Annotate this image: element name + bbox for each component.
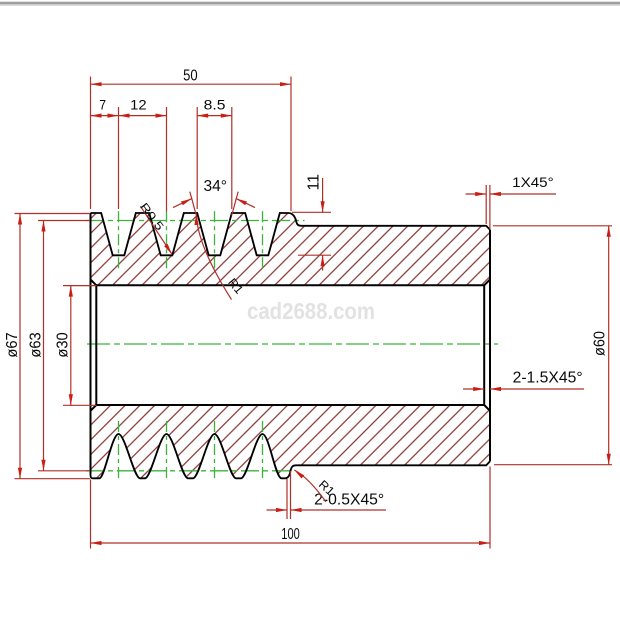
dim 2-0.5X45: extension lines [286, 479, 288, 519]
svg-text:ø30: ø30 [55, 332, 72, 357]
groove 2 centerline lower [166, 421, 168, 479]
dim 11: dimension line and arrows [322, 178, 324, 212]
dim phi63: dimension line [43, 221, 45, 471]
dim 11: extension lines [292, 211, 331, 213]
part outline: right face [489, 230, 491, 461]
pitch line lower [86, 470, 294, 472]
dim 7/12: dimension line [91, 115, 167, 117]
svg-text:34°: 34° [204, 178, 228, 195]
groove 3 centerline upper [214, 211, 216, 269]
dim 7/12: extension lines [118, 107, 120, 209]
svg-text:2-1.5X45°: 2-1.5X45° [513, 370, 583, 387]
bore chamfer edge right [483, 285, 485, 405]
svg-text:ø63: ø63 [27, 332, 44, 357]
part outline: grooved top profile with right chamfer [91, 213, 491, 255]
bore lower edge [96, 404, 484, 406]
leader R1 upper: line and arrow [196, 214, 231, 300]
svg-text:50: 50 [183, 68, 198, 85]
dim 2-1.5X45: dimension line and arrows [463, 388, 484, 390]
top gray separator bar [0, 1, 620, 2]
svg-text:11: 11 [306, 174, 323, 191]
groove 1 centerline lower [118, 421, 120, 479]
part outline: bottom wavy groove profile [91, 411, 491, 479]
hatched upper section (pulley rim cross-section) [91, 213, 491, 285]
dim phi60: extension lines [493, 225, 612, 227]
bore chamfer bottom-right [484, 405, 490, 411]
dim phi67: dimension line [19, 214, 21, 479]
groove 3 centerline lower [214, 421, 216, 479]
dim 100: extension lines [90, 480, 92, 549]
svg-text:cad2688.com: cad2688.com [247, 298, 375, 324]
svg-text:ø67: ø67 [4, 332, 21, 357]
dim 100: dimension line [91, 542, 491, 544]
dim phi30: dimension line [70, 286, 72, 406]
dim 8.5: dimension line [197, 115, 232, 117]
leader R1 lower: line and arrow [294, 470, 326, 502]
dim 1X45: extension lines [485, 185, 487, 224]
leader R0.5: line and arrow [141, 206, 172, 254]
part outline: left face [90, 213, 92, 473]
svg-text:100: 100 [281, 526, 300, 543]
dim 50: extension lines [90, 77, 92, 210]
groove 1 centerline upper [118, 211, 120, 269]
dim phi30: extension lines [63, 285, 97, 287]
bore upper edge [96, 284, 484, 286]
dim phi67: extension lines [15, 213, 91, 215]
svg-text:ø60: ø60 [592, 331, 609, 356]
pitch line upper [86, 220, 305, 222]
svg-text:8.5: 8.5 [204, 97, 226, 113]
dim phi60: dimension line [608, 226, 610, 465]
hatched lower section (pulley rim cross-section mirror) [91, 405, 491, 478]
dim 50: dimension line [91, 83, 292, 85]
axis centerline [87, 343, 498, 345]
groove 4 centerline lower [262, 421, 264, 479]
dim 8.5: extension lines [196, 107, 198, 209]
dim 34deg: left arrow line and arc [173, 199, 192, 208]
dim 1X45: dimension line and arrows [466, 193, 487, 195]
bore chamfer top-right [484, 280, 490, 286]
bore chamfer top-left [91, 280, 97, 286]
dim 34deg: right arrow line and arc [236, 199, 255, 208]
dim phi63: extension lines [38, 220, 90, 222]
dim 2-0.5X45: dimension line and arrows [267, 509, 288, 511]
svg-text:7: 7 [99, 97, 106, 113]
bore chamfer bottom-left [91, 405, 97, 411]
groove 4 centerline upper [262, 211, 264, 269]
bore chamfer edge left [95, 285, 97, 405]
svg-text:1X45°: 1X45° [512, 175, 554, 190]
groove 2 centerline upper [166, 211, 168, 269]
svg-text:12: 12 [130, 97, 147, 113]
